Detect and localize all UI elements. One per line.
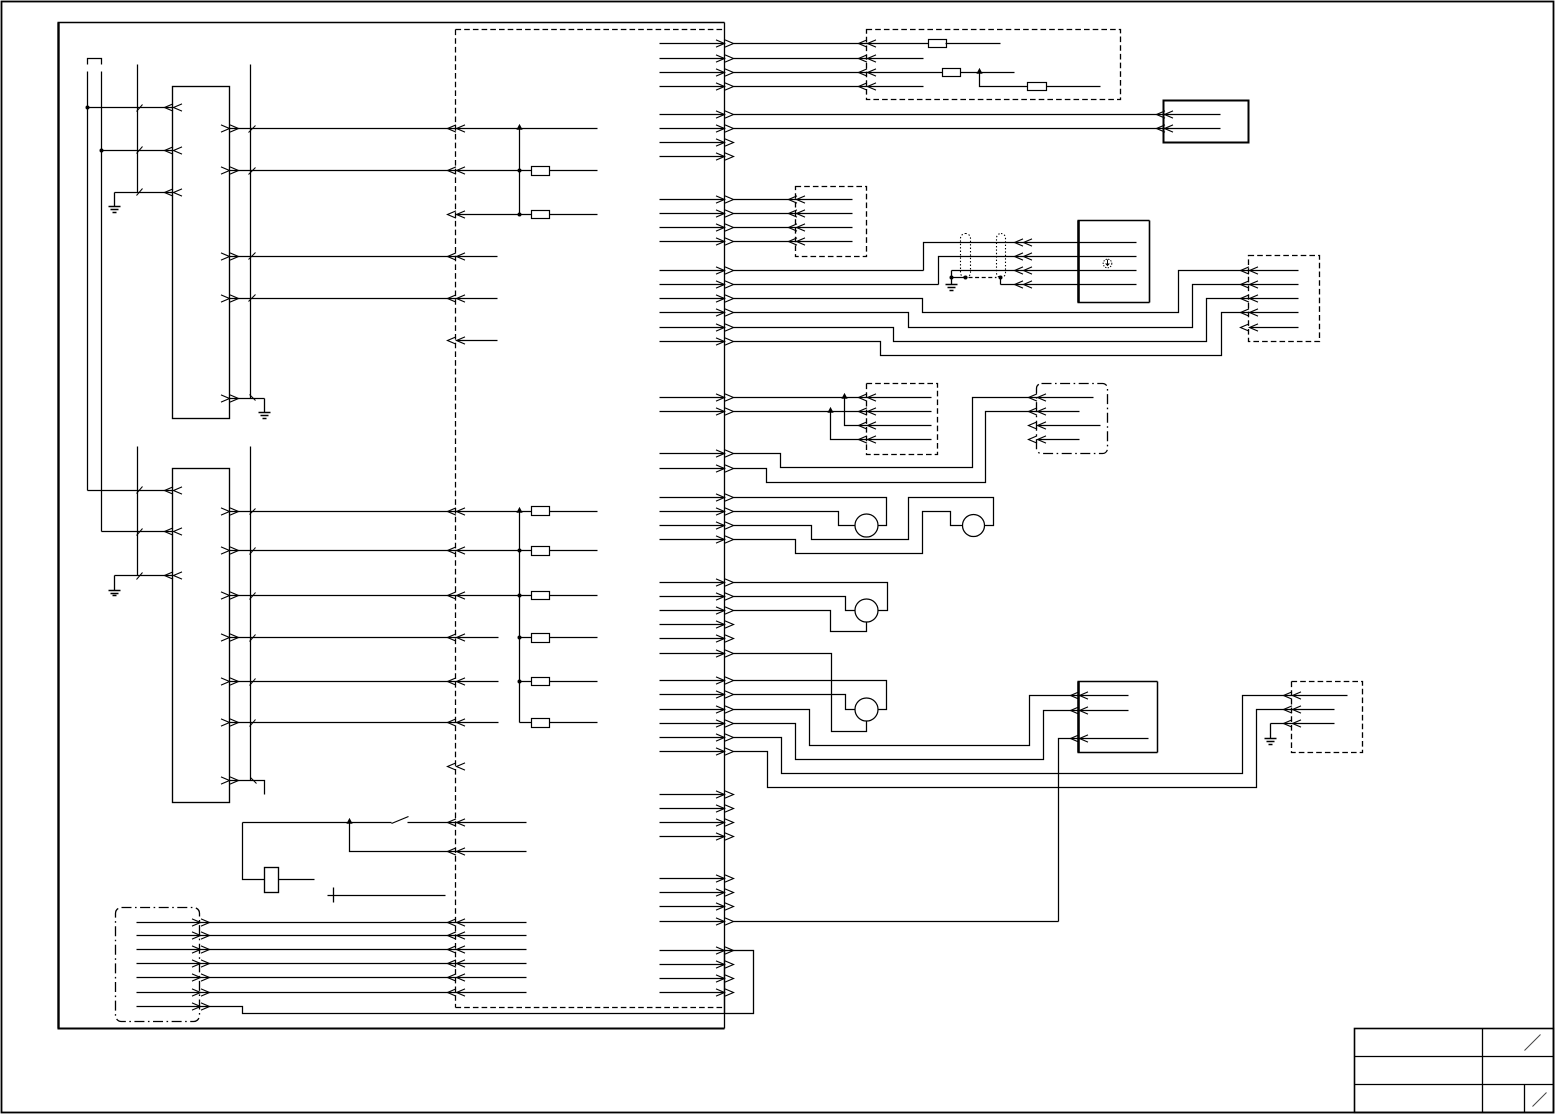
wire K2 input 3 bbox=[115, 575, 173, 577]
wire K2 ground jog bbox=[230, 781, 265, 795]
wire sender loop bbox=[243, 823, 265, 880]
junction arrow X2 bbox=[976, 68, 982, 74]
wire X2 line 2 bbox=[734, 58, 924, 60]
junction arrow X5a bbox=[841, 393, 847, 399]
ECU pin y=978.2 bbox=[660, 978, 725, 980]
wire X2 line 4 bbox=[734, 86, 924, 88]
ECU pin y=341.4 bbox=[660, 341, 725, 343]
wire H3 bottom feed bbox=[734, 611, 867, 632]
module M2 bbox=[1077, 221, 1080, 303]
sensor group X6 box bbox=[1037, 384, 1108, 454]
ECU pin y=525.3 bbox=[660, 525, 725, 527]
node drain 3 bbox=[999, 276, 1003, 280]
wire bus 8 bbox=[734, 711, 1129, 760]
ECU pin y=213.4 bbox=[660, 213, 725, 215]
ECU pin y=298.8 bbox=[660, 298, 725, 300]
node R2c bbox=[518, 636, 522, 640]
ECU pin y=327.2 bbox=[660, 327, 725, 329]
wire X2 line 3 bbox=[734, 72, 943, 74]
sensor group X8 box bbox=[116, 908, 200, 1022]
ECU dashed boundary top bbox=[456, 29, 725, 31]
wire H2 right feed bbox=[734, 498, 994, 540]
wire H1 right feed bbox=[734, 498, 887, 526]
ECU pin y=468 bbox=[660, 468, 725, 470]
fused rail R1 bbox=[519, 129, 521, 215]
ECU pin y=680.9 bbox=[660, 680, 725, 682]
wire X6 line 4 bbox=[1039, 439, 1080, 441]
battery B+ mark bbox=[333, 888, 335, 903]
switch S1 blade bbox=[392, 817, 409, 824]
ECU pin y=596.4 bbox=[660, 596, 725, 598]
fuse F8 bbox=[532, 719, 550, 728]
ECU pin y=808 bbox=[660, 808, 725, 810]
module M3 bbox=[1077, 682, 1080, 753]
wire bus 10 bbox=[734, 710, 1335, 788]
shield drain bbox=[952, 271, 966, 278]
main frame left edge bbox=[57, 23, 59, 1029]
wire to X3 line 2 bbox=[734, 213, 853, 215]
lamp H4 bbox=[855, 698, 878, 721]
junction arrow S1 bbox=[346, 818, 352, 824]
wire X8 line 7 bbox=[137, 1007, 725, 1014]
ECU pin y=313 bbox=[660, 312, 725, 314]
ECU pin y=511.4 bbox=[660, 511, 725, 513]
wire X8 line 5 bbox=[137, 977, 527, 979]
ECU pin y=878.9 bbox=[660, 878, 725, 880]
ECU pin y=653.2 bbox=[660, 653, 725, 655]
node drain 1 bbox=[950, 276, 954, 280]
node R2a bbox=[518, 549, 522, 553]
wire X8 line 1 bbox=[137, 922, 527, 924]
wire X5 branch 2 bbox=[831, 412, 932, 440]
wire H3 right feed bbox=[734, 583, 888, 611]
title block sub column bbox=[1524, 1085, 1526, 1113]
wire X5 branch 1 bbox=[845, 398, 932, 426]
wire X8 line 3 bbox=[137, 949, 527, 951]
wire bus 4 bbox=[734, 313, 1299, 356]
wire H1 left feed bbox=[734, 512, 855, 526]
ECU pin y=695 bbox=[660, 694, 725, 696]
ECU pin y=582.2 bbox=[660, 582, 725, 584]
wire switch feed bbox=[243, 822, 392, 824]
wire H4 bottom feed bbox=[734, 654, 867, 732]
wire shield line 4 bbox=[1001, 284, 1137, 286]
node R2d bbox=[518, 680, 522, 684]
ECU bottom block bbox=[725, 951, 754, 1014]
ECU pin y=227.4 bbox=[660, 227, 725, 229]
wire M3 line 3 bbox=[1059, 739, 1149, 922]
wire K2 output 1 bbox=[230, 511, 532, 513]
sense wire C2 bbox=[137, 447, 139, 576]
fuse F2 bbox=[532, 211, 550, 219]
ECU pin y=737.7 bbox=[660, 737, 725, 739]
lamp H3 bbox=[855, 599, 878, 622]
wire K2 input 1 bbox=[88, 490, 173, 492]
ground G4 bbox=[951, 278, 953, 285]
ECU pin y=906.4 bbox=[660, 906, 725, 908]
ECU pin y=992.5 bbox=[660, 992, 725, 994]
wire X7 line 3 bbox=[1271, 723, 1335, 725]
wire X8 line 6 bbox=[137, 992, 527, 994]
connector plug bracket bbox=[88, 59, 102, 65]
main frame top edge bbox=[58, 22, 725, 24]
resistor R1 bbox=[265, 868, 279, 893]
ECU pin y=128.8 bbox=[660, 128, 725, 130]
ECU dashed boundary left bbox=[455, 30, 457, 1008]
ECU pin y=639 bbox=[660, 638, 725, 640]
ECU pin y=397.6 bbox=[660, 397, 725, 399]
wire X4 line 5 bbox=[1251, 327, 1299, 329]
ECU pin y=892.9 bbox=[660, 892, 725, 894]
wire K2 output 3 bbox=[230, 595, 532, 597]
ECU pin y=284.6 bbox=[660, 284, 725, 286]
wire X2 branch bbox=[980, 73, 1028, 87]
ground G2 bbox=[264, 399, 266, 413]
ECU connector column (frame right edge) bbox=[724, 23, 726, 1029]
ECU pin y=43.6 bbox=[660, 43, 725, 45]
wire K2 input 2 bbox=[102, 531, 173, 533]
wire long bottom bus bbox=[734, 921, 1059, 923]
ground G5 bbox=[1270, 724, 1272, 739]
ECU pin y=709.5 bbox=[660, 709, 725, 711]
title slash 1 bbox=[1525, 1035, 1541, 1051]
wire K2 output 6 bbox=[230, 722, 499, 724]
fuse F9 bbox=[929, 40, 947, 48]
fused branch 5 bbox=[520, 681, 532, 683]
supply rail wire A bbox=[87, 72, 89, 491]
relay group X2 box bbox=[867, 30, 1121, 100]
sense wire C1 bbox=[137, 65, 139, 193]
wire sender stub bbox=[279, 879, 315, 881]
wire shield line 2 bbox=[734, 284, 939, 286]
fuse F11 bbox=[1028, 83, 1047, 91]
wire K1 output 2 bbox=[230, 170, 532, 172]
junction arrow rail R2 top bbox=[516, 507, 522, 513]
ECU pin y=270.4 bbox=[660, 270, 725, 272]
ECU pin y=241.4 bbox=[660, 241, 725, 243]
shield pill 1 bbox=[961, 234, 971, 278]
wire ECU feed 3 bbox=[457, 214, 532, 216]
ECU pin y=723.5 bbox=[660, 723, 725, 725]
sensor group X3 box bbox=[796, 187, 867, 257]
wire K2 output 5 bbox=[230, 681, 499, 683]
title slash 2 bbox=[1533, 1093, 1547, 1107]
wire to M1 pin 1 bbox=[734, 114, 1221, 116]
wire switch to ECU bbox=[408, 822, 527, 824]
ECU pin y=964.2 bbox=[660, 964, 725, 966]
wire K2 output 2 bbox=[230, 550, 532, 552]
ECU pin y=453.8 bbox=[660, 453, 725, 455]
ECU pin y=610.6 bbox=[660, 610, 725, 612]
wire bus 5 bbox=[734, 398, 1094, 468]
node R1a bbox=[518, 169, 522, 173]
ECU pin y=86.8 bbox=[660, 86, 725, 88]
wire bus 7 bbox=[734, 696, 1129, 746]
wire H2 left feed bbox=[734, 512, 963, 554]
fuse F7 bbox=[532, 678, 550, 686]
wire to X3 line 4 bbox=[734, 241, 853, 243]
wire to M1 pin 2 bbox=[734, 128, 1221, 130]
wire to X3 line 3 bbox=[734, 227, 853, 229]
wire H3 left feed bbox=[734, 597, 855, 611]
wire K1 output 5 bbox=[230, 298, 498, 300]
connector K2 bbox=[173, 469, 230, 803]
wire switch branch bbox=[350, 823, 527, 852]
ECU pin y=142.8 bbox=[660, 142, 725, 144]
wire H4 right feed bbox=[734, 681, 887, 710]
wire K2 output 4 bbox=[230, 637, 499, 639]
wire bus 6 bbox=[734, 412, 1080, 483]
title block bbox=[1355, 1029, 1554, 1113]
wire bus 2 bbox=[734, 285, 1299, 328]
ECU pin y=539.4 bbox=[660, 539, 725, 541]
PE symbol in M2 bbox=[1103, 259, 1112, 268]
ECU pin y=836.3 bbox=[660, 836, 725, 838]
junction arrow X5b bbox=[827, 407, 833, 413]
junction arrow rail R1 top bbox=[516, 124, 522, 130]
wire bus 3 bbox=[734, 299, 1299, 342]
sensor group X5 box bbox=[867, 384, 938, 455]
title block row line 2 bbox=[1355, 1084, 1554, 1086]
ECU pin y=822.6 bbox=[660, 822, 725, 824]
wire shield line 1 bbox=[734, 270, 924, 272]
wire X8 line 4 bbox=[137, 963, 527, 965]
module M1 bbox=[1164, 101, 1249, 143]
node A1 bbox=[86, 106, 90, 110]
ECU pin y=751.9 bbox=[660, 751, 725, 753]
node drain 2 bbox=[964, 276, 968, 280]
relay group X7 box bbox=[1292, 682, 1363, 753]
lamp H2 bbox=[963, 515, 985, 537]
ECU pin y=950.2 bbox=[660, 950, 725, 952]
ECU pin y=72.4 bbox=[660, 72, 725, 74]
fused branch 4 bbox=[520, 637, 532, 639]
ECU pin y=199.4 bbox=[660, 199, 725, 201]
fuse F3 bbox=[532, 507, 550, 516]
wire to X5 line 2 bbox=[734, 411, 932, 413]
fuse F4 bbox=[532, 547, 550, 556]
ECU pin y=58 bbox=[660, 58, 725, 60]
ECU pin y=114.6 bbox=[660, 114, 725, 116]
lone ECU arrow bbox=[448, 763, 466, 770]
wire shield line 3 bbox=[952, 270, 1137, 272]
wire to X5 line 1 bbox=[734, 397, 932, 399]
ECU dashed boundary bottom bbox=[456, 1007, 725, 1009]
wire K1 output 4 bbox=[230, 256, 498, 258]
wire ECU feed 6 bbox=[457, 340, 498, 342]
title block column line bbox=[1482, 1029, 1484, 1113]
ECU pin y=497.3 bbox=[660, 497, 725, 499]
fuse F10 bbox=[943, 69, 961, 77]
sense wire D1 bbox=[250, 65, 252, 399]
main frame bottom edge bbox=[58, 1028, 725, 1030]
ECU pin y=624.8 bbox=[660, 624, 725, 626]
sense wire D2 bbox=[250, 447, 252, 781]
node R1b bbox=[518, 213, 522, 217]
wire K1 input 3 bbox=[115, 192, 173, 194]
shield pill 2 bbox=[997, 234, 1006, 278]
ECU pin y=921.6 bbox=[660, 921, 725, 923]
ECU pin y=794 bbox=[660, 794, 725, 796]
connector K1 bbox=[173, 87, 230, 419]
title block row line 1 bbox=[1355, 1056, 1554, 1058]
wire to X3 line 1 bbox=[734, 199, 853, 201]
wire X6 line 3 bbox=[1039, 425, 1101, 427]
wire K1 ground jog bbox=[230, 398, 265, 400]
wire bus 1 bbox=[734, 271, 1299, 313]
wire K1 input 2 bbox=[102, 150, 173, 152]
fuse F1 bbox=[532, 167, 550, 176]
ECU pin y=157 bbox=[660, 156, 725, 158]
relay group X4 box bbox=[1249, 256, 1320, 342]
wire H4 left feed bbox=[734, 695, 855, 710]
ground G3 bbox=[114, 576, 116, 591]
wire X8 line 2 bbox=[137, 935, 527, 937]
node R2b bbox=[518, 594, 522, 598]
fuse F6 bbox=[532, 634, 550, 643]
ground G1 bbox=[114, 193, 116, 207]
fuse F5 bbox=[532, 592, 550, 600]
wire K1 input 1 bbox=[88, 107, 173, 109]
fused rail R2 bbox=[519, 512, 521, 723]
supply rail wire B bbox=[101, 72, 103, 532]
wire bus 9 bbox=[734, 696, 1348, 774]
fused branch 6 bbox=[520, 722, 532, 724]
ECU pin y=411.8 bbox=[660, 411, 725, 413]
wire K1 output 1 bbox=[230, 128, 598, 130]
wire X2 line 1 bbox=[734, 43, 929, 45]
lamp H1 bbox=[855, 514, 878, 537]
node B1 bbox=[100, 149, 104, 153]
wire battery bbox=[328, 895, 446, 897]
